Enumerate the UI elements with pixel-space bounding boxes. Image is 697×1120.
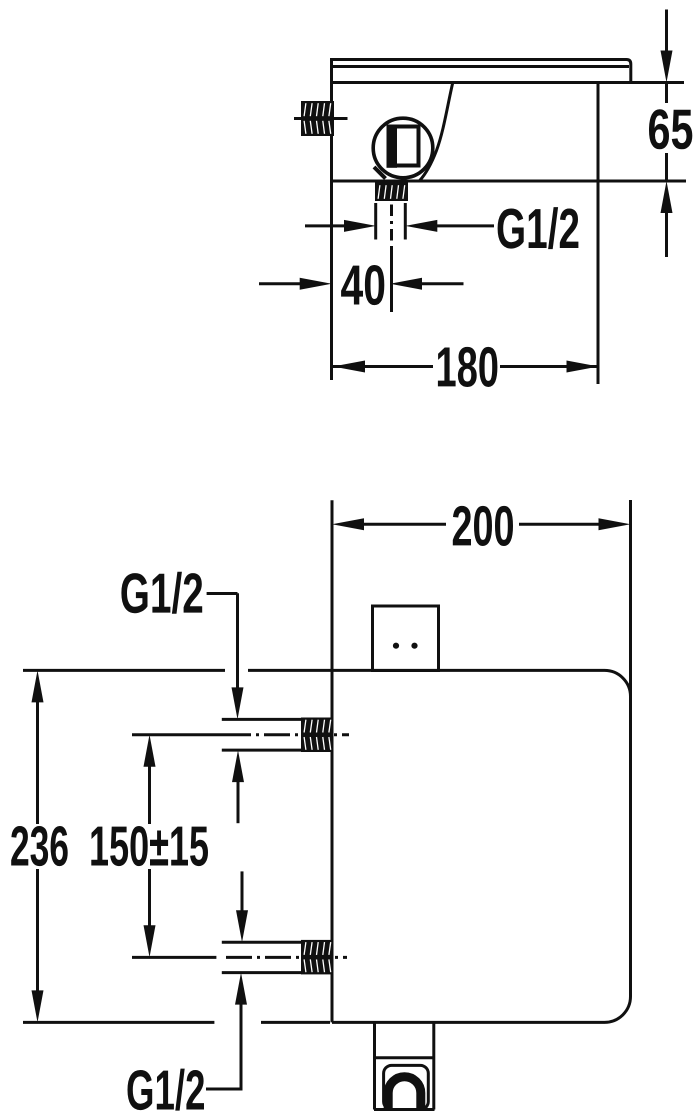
outlet divider line [374,1056,435,1059]
dim 40 right arrow [390,278,422,290]
dim G1/2 top left arrow [344,220,376,232]
dim 150 bottom arrow [144,925,156,957]
diverter dot right [411,643,417,649]
nipple extension stub left [374,203,377,240]
label G1/2 lower callout [128,1069,205,1111]
dim 65 mid segment2 [665,153,668,181]
dim 65 mid segment [665,84,668,103]
wall line right segment [248,669,332,672]
dim G1/2 top left line [305,224,345,227]
G1/2 lower up arrow [235,973,247,1005]
dim 180 left arrow [333,361,365,373]
dim G1/2 top right line [436,224,494,227]
spout plate top line [332,60,631,82]
spout channel curve [420,83,453,181]
lower port bottom line [222,971,302,974]
front 200 right extension [629,500,632,697]
nipple centerline dash-dot [390,205,393,313]
upper port hatch [301,718,334,753]
wall line left segment [23,669,225,672]
outlet right wall [432,1023,435,1110]
body right edge with extension [597,84,600,384]
lower port thread slashes [304,942,331,955]
front body left edge and 200 extension [331,500,334,1022]
bottom extension line left [23,1021,214,1024]
G1/2 lower vertical [240,1004,243,1089]
G1/2 upper leader horizontal [207,592,238,595]
bottom extension line right [261,1021,330,1024]
dim 65 vertical top [665,10,668,52]
dim 200 line right [519,523,599,526]
handle left thick bar [387,125,398,168]
dim 236 upper line [36,701,39,824]
dim 200 right arrow [599,518,631,530]
dim 150 lower line [148,869,151,926]
label G1/2 top [498,207,579,249]
bracket rounded rect [384,1065,429,1109]
label 65 [649,109,692,149]
lower port hatch [301,940,334,975]
nipple extension stub right [404,203,407,240]
nipple thread slashes [378,185,405,199]
dim 180 line right [500,365,598,368]
label 180 [438,347,498,387]
upper port thread slashes [304,720,331,733]
dim 200 line left [363,523,446,526]
dim 40 left line [259,282,301,285]
dim 236 lower line [36,869,39,991]
outlet left wall [373,1023,376,1110]
dim 40 right line [421,282,464,285]
dim 236 top arrow [32,670,44,702]
diverter dot left [393,643,399,649]
spout plate inner line [332,65,630,68]
cartridge circle [373,118,433,178]
body top line with 65 extension [332,81,685,84]
dim G1/2 top right arrow [405,220,437,232]
G1/2 upper opposing arrow [232,750,244,782]
bottom nipple hatch [375,182,408,201]
bracket arch [388,1077,421,1109]
G1/2 upper down arrow [232,687,244,719]
G1/2 lower leader horizontal [206,1088,243,1091]
diverter square [373,606,439,671]
upper port centerline dashdot [225,733,349,736]
lower port top line [222,941,302,944]
dim 65 bottom arrow [661,181,673,213]
dim 65 vertical bottom [665,213,668,257]
label G1/2 upper callout [121,572,202,614]
dim 40 left arrow [300,278,332,290]
G1/2 upper opposing line [237,781,240,823]
upper port bottom line [222,749,302,752]
handle inner rect [389,127,419,166]
upper port centerline solid [132,733,225,736]
label 200 [453,506,513,546]
left port centerline [294,117,348,120]
outlet bottom line [374,1108,435,1111]
label 150±15 [91,826,208,866]
dim 180 right arrow [567,361,599,373]
body left edge with extension [330,58,333,380]
label 236 [11,826,67,866]
lower port centerline dashdot [226,956,347,959]
upper port top line [222,718,302,721]
front body outline [332,670,631,1022]
G1/2 lower down arrow [236,910,248,942]
dim 200 left arrow [332,518,364,530]
G1/2 lower upper line [241,871,244,911]
dim 150 upper line [148,766,151,824]
left threaded port hatch [301,101,334,136]
lever stub [374,167,386,179]
left port thread slashes [304,103,331,116]
lower port centerline solid [132,956,216,959]
dim 180 line left [333,365,433,368]
G1/2 upper leader vertical [236,593,239,688]
label 40 [341,265,384,305]
body bottom line with 65 extension [332,180,687,183]
dim 150 top arrow [144,735,156,767]
dim 65 top arrow [661,51,673,83]
dim 236 bottom arrow [32,990,44,1022]
